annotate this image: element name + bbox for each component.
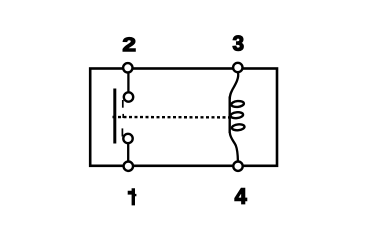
pin label 1: [128, 188, 137, 205]
pin label 2: [123, 38, 135, 52]
tick on dashed line: [122, 114, 124, 118]
mechanical linkage dashed line: [113, 116, 232, 119]
pin label 3: [233, 36, 243, 51]
terminal 3 circle: [233, 63, 242, 72]
coil left spine: [228, 97, 230, 134]
relay body outline K1: [90, 69, 277, 166]
terminal 4 circle: [233, 162, 242, 171]
armature bar (movable contact): [113, 89, 116, 144]
wire lower contact to terminal1: [127, 143, 129, 163]
wire terminal2 to upper contact: [127, 70, 129, 92]
lower contact tail: [121, 128, 123, 136]
terminal 1 circle: [124, 162, 133, 171]
coil lead from terminal 3: [230, 73, 238, 100]
terminal 2 circle: [123, 63, 132, 72]
coil loop 1: [231, 100, 244, 107]
coil loop 2: [230, 112, 243, 119]
pin label 4: [235, 188, 247, 203]
lower fixed contact circle: [123, 134, 132, 143]
coil loop 3: [232, 124, 245, 131]
upper fixed contact circle: [124, 92, 133, 101]
coil lead to terminal 4: [230, 133, 238, 162]
upper contact tail: [122, 100, 124, 108]
